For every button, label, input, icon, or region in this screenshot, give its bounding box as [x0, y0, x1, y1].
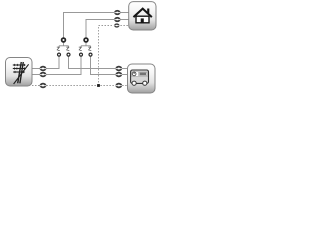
- connector ring: meter L2: [115, 72, 122, 77]
- meter register: [139, 72, 147, 75]
- wire: grid L1 to switch S1 branch: [46, 56, 59, 68]
- node N2: [84, 38, 88, 42]
- wire: grid L2 stub to connector: [32, 74, 40, 76]
- wire: meter L2 stub: [122, 74, 127, 76]
- wire: grid L1 stub to connector: [32, 68, 40, 70]
- wire: neutral dashed grid stub: [32, 85, 40, 87]
- switch S3 blade: [79, 47, 82, 51]
- pylon icon: [13, 62, 29, 84]
- wire: grid L2 to switch S3 branch: [46, 56, 81, 74]
- node N2 busbar split: [81, 43, 91, 48]
- node N1 busbar split: [59, 43, 69, 48]
- connector ring: grid L1: [40, 66, 47, 71]
- wire: meter L2 from switch S4: [91, 56, 116, 74]
- node N1: [62, 38, 66, 42]
- wire: meter L1 stub: [122, 68, 127, 70]
- wire: house L1 from node N1: [64, 13, 115, 38]
- switch S1 blade: [57, 47, 60, 51]
- connector ring: house L2: [114, 17, 120, 22]
- connector ring: house neutral: [114, 23, 119, 27]
- connector ring: meter L1: [115, 66, 122, 71]
- wire: meter neutral stub dashed: [122, 85, 127, 87]
- terminal B1: [58, 53, 61, 56]
- wire: meter L1 from switch S2: [69, 56, 116, 68]
- connector ring: meter neutral: [115, 83, 122, 88]
- wire: neutral dashed riser to house: [99, 26, 114, 86]
- terminal B4: [89, 53, 92, 56]
- wire: house L1 stub: [120, 12, 129, 14]
- house icon: [134, 9, 151, 23]
- utility grid box: [6, 58, 33, 87]
- wire: neutral dashed main run: [46, 85, 115, 87]
- wire: house L2 from node N2: [86, 20, 114, 38]
- meter icon: [131, 70, 149, 85]
- connector ring: grid L2: [40, 72, 47, 77]
- wire: house L2 stub: [120, 19, 129, 21]
- house box: [129, 2, 156, 30]
- meter seals: [132, 81, 136, 85]
- terminal B3: [80, 53, 83, 56]
- connector ring: house L1: [114, 10, 120, 15]
- wire: house neutral stub dashed: [120, 25, 129, 27]
- meter box: [128, 64, 156, 93]
- switch S4 blade: [88, 47, 91, 51]
- terminal B2: [67, 53, 70, 56]
- junction: neutral tee dot: [97, 84, 100, 87]
- switch S2 blade: [66, 47, 69, 51]
- meter dial: [132, 72, 136, 76]
- connector ring: grid neutral: [40, 83, 47, 88]
